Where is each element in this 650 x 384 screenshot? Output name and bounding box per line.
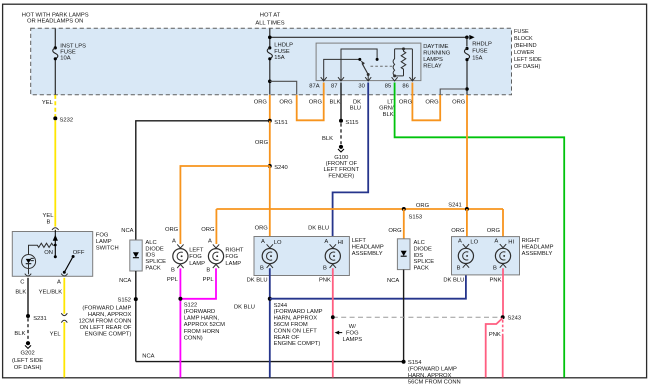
switch pin B arrow xyxy=(54,230,56,236)
svg-text:S231: S231 xyxy=(33,316,47,322)
svg-text:LHDLP: LHDLP xyxy=(274,43,293,49)
switch pin C chevron xyxy=(25,274,31,276)
svg-text:LEFT SIDE: LEFT SIDE xyxy=(514,57,542,63)
svg-text:BLK: BLK xyxy=(15,289,26,295)
svg-text:FUSE: FUSE xyxy=(60,50,76,56)
svg-text:ORG: ORG xyxy=(388,228,402,234)
svg-text:NCA: NCA xyxy=(119,278,131,284)
svg-text:FOG: FOG xyxy=(346,331,359,337)
svg-text:A: A xyxy=(208,239,212,245)
fog lamp switch S1 xyxy=(12,232,92,277)
relay pin 85 xyxy=(392,77,398,81)
wire: ORG relay 87A loop xyxy=(297,83,324,121)
svg-text:SPLICE: SPLICE xyxy=(414,259,435,265)
relay box: daytime running lamps relay U1 xyxy=(316,43,421,81)
wire: hot-at-all-times feed xyxy=(269,29,271,47)
svg-text:BLK: BLK xyxy=(330,99,341,105)
splice S122 xyxy=(178,297,182,301)
label S154 location xyxy=(408,360,461,384)
relay pin 87 xyxy=(338,77,344,81)
svg-text:87A: 87A xyxy=(309,84,319,90)
wire: BLK dashed to G100 xyxy=(340,123,342,144)
svg-text:S154: S154 xyxy=(408,360,422,366)
label S152 location xyxy=(79,306,132,338)
svg-text:(FORWARD LAMP: (FORWARD LAMP xyxy=(82,306,131,312)
svg-text:LAMP: LAMP xyxy=(96,239,112,245)
fuse: LHDLP FUSE 15A xyxy=(267,46,272,60)
left headlamp assembly box xyxy=(254,237,349,276)
splice S154 xyxy=(402,360,406,364)
right fog lamp xyxy=(208,244,223,268)
relay pin 87A xyxy=(321,77,327,81)
label: RHDLP FUSE 15A xyxy=(472,42,492,62)
svg-text:NCA: NCA xyxy=(387,278,399,284)
wire: PNK solid below S243 to page edge xyxy=(502,336,504,378)
svg-text:S240: S240 xyxy=(274,165,288,171)
svg-text:HOT AT: HOT AT xyxy=(260,13,281,19)
svg-text:HI: HI xyxy=(338,240,344,246)
inline connector on YEL wire xyxy=(61,313,67,322)
svg-text:B: B xyxy=(493,266,497,272)
svg-text:S241: S241 xyxy=(448,202,462,208)
svg-text:DK BLU: DK BLU xyxy=(308,226,329,232)
svg-text:YEL: YEL xyxy=(50,332,62,338)
svg-text:HEADLAMP: HEADLAMP xyxy=(352,245,384,251)
label G202 location xyxy=(12,351,43,371)
svg-text:ORG: ORG xyxy=(399,99,413,105)
svg-text:15A: 15A xyxy=(274,55,284,61)
fuse block label xyxy=(514,29,542,70)
switch node: ON contact xyxy=(54,255,57,258)
svg-text:BLU: BLU xyxy=(350,106,361,112)
svg-text:ORG: ORG xyxy=(279,99,293,105)
svg-text:PPL: PPL xyxy=(167,277,179,283)
svg-text:BLK: BLK xyxy=(383,112,394,118)
svg-text:S151: S151 xyxy=(274,120,288,126)
svg-text:INST LPS: INST LPS xyxy=(60,43,86,49)
relay switch arm xyxy=(360,60,370,76)
svg-text:DIODE: DIODE xyxy=(145,246,163,252)
svg-text:S244: S244 xyxy=(274,303,288,309)
svg-text:YEL: YEL xyxy=(42,100,54,106)
fuse: INST LPS FUSE 10A xyxy=(53,46,58,60)
relay contact 87 branch xyxy=(341,49,377,80)
fuse: RHDLP FUSE 15A xyxy=(464,47,469,61)
wire: INST LPS fuse feed xyxy=(54,29,56,47)
svg-text:ENGINE COMPT): ENGINE COMPT) xyxy=(274,341,321,347)
svg-text:YEL: YEL xyxy=(43,213,55,219)
svg-text:HEADLAMP: HEADLAMP xyxy=(522,245,554,251)
wire: YEL/BLK switch A down xyxy=(63,278,65,314)
label: INST LPS FUSE 10A xyxy=(60,43,86,61)
wire: DK BLU relay 30 to left headlamp HI xyxy=(333,83,369,245)
svg-text:B: B xyxy=(206,267,210,273)
relay arm-coil dashed link xyxy=(371,65,393,67)
svg-text:12CM FROM CONN: 12CM FROM CONN xyxy=(79,319,132,325)
wire: ORG headlamp bus xyxy=(216,208,503,210)
left headlamp HI bulb xyxy=(325,244,340,268)
svg-text:FOG: FOG xyxy=(189,254,202,260)
svg-text:RHDLP: RHDLP xyxy=(472,42,492,48)
svg-text:ASSEMBLY: ASSEMBLY xyxy=(352,251,383,257)
left headlamp LO bulb xyxy=(262,244,277,268)
svg-text:BLK: BLK xyxy=(322,136,333,142)
svg-text:A: A xyxy=(261,239,265,245)
wire: PNK right HL HI B to S243 xyxy=(502,268,504,317)
svg-text:PACK: PACK xyxy=(414,266,429,272)
svg-text:LEFT: LEFT xyxy=(352,238,367,244)
svg-text:86: 86 xyxy=(402,84,408,90)
svg-text:DIODE: DIODE xyxy=(414,246,432,252)
label fog lamp switch xyxy=(96,233,119,252)
relay pin 30 xyxy=(365,77,371,81)
wire: RHDLP fuse feed xyxy=(466,37,468,46)
svg-text:B: B xyxy=(323,266,327,272)
wire: ORG S153 to right splice pack xyxy=(403,209,405,239)
svg-text:PACK: PACK xyxy=(145,265,160,271)
svg-text:FUSE: FUSE xyxy=(472,49,488,55)
svg-text:ON LEFT REAR OF: ON LEFT REAR OF xyxy=(80,325,132,331)
splice S244 xyxy=(268,297,272,301)
switch illumination lamp (LED) xyxy=(22,255,36,275)
wire: PNK left HL HI B down to option splice xyxy=(332,268,334,377)
wire: ORG S240 to left headlamp LO xyxy=(269,166,271,244)
svg-text:ALC: ALC xyxy=(145,240,156,246)
wire: YEL below connector to page edge xyxy=(63,322,65,378)
svg-text:ENGINE COMPT): ENGINE COMPT) xyxy=(85,331,132,337)
wire: ORG LHDLP fuse to S151 xyxy=(269,95,271,121)
node: RHDLP output junction xyxy=(465,87,469,91)
wire: NCA left pack to S152 xyxy=(135,271,137,362)
svg-text:C: C xyxy=(20,280,24,286)
svg-text:56CM FROM: 56CM FROM xyxy=(274,322,308,328)
label: daytime running lamps relay xyxy=(423,44,451,70)
svg-text:ORG: ORG xyxy=(451,228,465,234)
switch resistor xyxy=(29,243,55,254)
splice S243 xyxy=(501,315,505,319)
svg-text:ORG: ORG xyxy=(165,227,179,233)
wire: YEL dashed segment below fuse block xyxy=(54,95,56,117)
label S122 location xyxy=(184,302,225,341)
svg-text:FENDER): FENDER) xyxy=(328,173,354,179)
svg-text:(FORWARD: (FORWARD xyxy=(184,309,216,315)
wire: ORG RHDLP fuse down to S241 xyxy=(466,95,468,209)
node: bus junction at RHDLP xyxy=(465,36,469,40)
splice S231 xyxy=(26,314,30,318)
svg-text:REAR OF: REAR OF xyxy=(274,335,300,341)
svg-text:SPLICE: SPLICE xyxy=(145,259,166,265)
splice S151 xyxy=(268,119,272,123)
label W/ FOG LAMPS xyxy=(342,324,362,343)
svg-text:A: A xyxy=(458,239,462,245)
svg-text:A: A xyxy=(57,280,61,286)
wire: PPL left fog B to S122 and page edge xyxy=(179,268,181,377)
svg-text:PNK: PNK xyxy=(489,332,501,338)
svg-text:HARN, APPROX: HARN, APPROX xyxy=(88,312,132,318)
svg-text:(FORWARD LAMP: (FORWARD LAMP xyxy=(274,309,323,315)
svg-text:CONN ON LEFT: CONN ON LEFT xyxy=(274,328,318,334)
svg-text:(BEHIND: (BEHIND xyxy=(514,43,537,49)
svg-text:FROM HORN: FROM HORN xyxy=(184,329,220,335)
wire: BLK dashed to G202 xyxy=(27,318,29,340)
label: LHDLP FUSE 15A xyxy=(274,43,293,62)
svg-text:ORG: ORG xyxy=(255,140,269,146)
svg-text:IDS: IDS xyxy=(414,253,424,259)
svg-text:LAMP HARN,: LAMP HARN, xyxy=(184,316,220,322)
right ALC diode IDS splice pack xyxy=(397,239,410,270)
svg-text:B: B xyxy=(171,267,175,273)
svg-text:87: 87 xyxy=(331,84,337,90)
svg-text:FUSE: FUSE xyxy=(514,29,529,35)
svg-text:APPROX 52CM: APPROX 52CM xyxy=(184,322,225,328)
right headlamp LO bulb xyxy=(458,244,473,268)
diode (right splice pack) xyxy=(401,251,407,256)
wire: NCA bottom run S152 to S154 xyxy=(136,361,404,363)
node: option splice on left PNK xyxy=(331,315,335,319)
splice S153 xyxy=(402,207,406,211)
svg-text:RIGHT: RIGHT xyxy=(522,238,540,244)
svg-text:PNK: PNK xyxy=(319,278,331,284)
wire: ORG S241 to right headlamp LO xyxy=(466,209,468,244)
wire: LHDLP output to relay 87A (in box) xyxy=(270,81,297,94)
svg-text:ORG: ORG xyxy=(201,227,215,233)
svg-text:FOG: FOG xyxy=(96,233,109,239)
svg-text:ORG: ORG xyxy=(452,99,466,105)
wire: BLK relay 87 to S115 xyxy=(340,83,342,121)
svg-text:IDS: IDS xyxy=(145,253,155,259)
svg-text:G202: G202 xyxy=(21,351,35,357)
svg-text:ALL TIMES: ALL TIMES xyxy=(255,20,284,26)
svg-text:SWITCH: SWITCH xyxy=(96,245,119,251)
switch node: resistor tap xyxy=(54,244,57,247)
wire: LT GRN/BLK relay 85 down and right xyxy=(395,83,565,378)
svg-text:A: A xyxy=(172,239,176,245)
svg-text:LOWER: LOWER xyxy=(514,50,534,56)
label right fog lamp xyxy=(225,247,243,266)
ground G100 xyxy=(338,145,344,152)
svg-text:S153: S153 xyxy=(409,214,423,220)
switch node: OFF contact xyxy=(72,255,75,258)
svg-text:BLOCK: BLOCK xyxy=(514,36,533,42)
svg-text:S122: S122 xyxy=(184,302,198,308)
svg-text:HARN, APPROX: HARN, APPROX xyxy=(408,373,452,379)
svg-text:S243: S243 xyxy=(508,315,522,321)
svg-text:OF DASH): OF DASH) xyxy=(14,365,42,371)
svg-text:FOG: FOG xyxy=(225,254,238,260)
wire: hot feed bus (in box) xyxy=(270,36,467,38)
svg-text:RELAY: RELAY xyxy=(423,64,442,70)
fuse block (dashed box) xyxy=(31,28,512,95)
svg-text:15A: 15A xyxy=(472,56,482,62)
svg-text:85: 85 xyxy=(385,84,391,90)
svg-text:LT: LT xyxy=(387,99,394,105)
svg-text:LAMP: LAMP xyxy=(189,261,205,267)
svg-text:LO: LO xyxy=(470,240,478,246)
svg-text:W/: W/ xyxy=(349,324,356,330)
svg-text:PNK: PNK xyxy=(490,278,502,284)
splice S152 xyxy=(134,297,138,301)
svg-text:ORG: ORG xyxy=(254,99,268,105)
svg-text:ORG: ORG xyxy=(487,228,501,234)
svg-text:ALC: ALC xyxy=(414,240,425,246)
svg-text:10A: 10A xyxy=(60,56,70,62)
arrow: bus continuation xyxy=(469,35,474,40)
svg-text:PPL: PPL xyxy=(203,277,215,283)
svg-text:A: A xyxy=(494,239,498,245)
svg-text:ORG: ORG xyxy=(309,99,323,105)
svg-text:OR HEADLAMPS ON: OR HEADLAMPS ON xyxy=(27,18,83,24)
label left ALC diode IDS splice pack xyxy=(145,240,166,271)
svg-text:B: B xyxy=(457,266,461,272)
ground G202 xyxy=(25,341,31,348)
wire: ORG S240 branch to left fog lamp xyxy=(180,166,269,244)
wire: BLK switch C to S231 xyxy=(27,278,29,316)
wire: dashed option link (w/ fog lamps) xyxy=(333,316,503,318)
svg-text:GRN/: GRN/ xyxy=(379,106,394,112)
svg-text:B: B xyxy=(46,220,50,226)
relay contact 87A branch xyxy=(324,59,359,80)
label DK BLU (30) xyxy=(350,99,361,111)
left ALC diode IDS splice pack xyxy=(130,240,142,271)
svg-text:B: B xyxy=(260,266,264,272)
node: LHDLP output junction xyxy=(268,80,272,84)
svg-text:ORG: ORG xyxy=(255,226,269,232)
svg-text:DK BLU: DK BLU xyxy=(247,278,268,284)
svg-text:ORG: ORG xyxy=(425,99,439,105)
svg-text:LAMPS: LAMPS xyxy=(342,337,362,343)
svg-text:56CM FROM CONN: 56CM FROM CONN xyxy=(408,380,461,384)
wire: LHDLP fuse output (in box) xyxy=(269,60,271,95)
wire: PNK dashed below S243 xyxy=(502,320,504,336)
switch pin B chevron xyxy=(52,228,59,230)
label right ALC diode IDS splice pack xyxy=(414,240,435,272)
wire: RHDLP fuse output (in box) xyxy=(466,61,468,95)
svg-text:S115: S115 xyxy=(345,120,358,126)
wire: NCA right pack to S154 xyxy=(403,270,405,362)
right headlamp HI bulb xyxy=(495,244,510,268)
switch arm (A to OFF) xyxy=(63,258,73,274)
label left headlamp assembly xyxy=(352,238,384,257)
switch pin A chevron xyxy=(61,274,67,276)
svg-text:HARN, APPROX: HARN, APPROX xyxy=(274,316,318,322)
relay coil xyxy=(393,47,412,80)
relay contact 87 dot xyxy=(376,58,379,61)
relay common 30 lead xyxy=(367,75,369,81)
svg-text:S232: S232 xyxy=(60,118,74,124)
svg-text:DK BLU: DK BLU xyxy=(443,278,464,284)
arrow: w/ fog lamps pointer xyxy=(335,331,343,335)
label right headlamp assembly xyxy=(522,238,554,257)
svg-text:DAYTIME: DAYTIME xyxy=(423,44,448,50)
wire: PNK jog from S243 to page edge xyxy=(486,318,503,378)
svg-text:DK: DK xyxy=(353,99,361,105)
right headlamp assembly box xyxy=(452,237,520,275)
svg-text:LAMP: LAMP xyxy=(225,261,241,267)
svg-text:ON: ON xyxy=(44,250,53,256)
svg-text:(FRONT OF: (FRONT OF xyxy=(326,161,358,167)
svg-text:(LEFT SIDE: (LEFT SIDE xyxy=(12,358,43,364)
wire: ORG bus drop to right headlamp HI xyxy=(502,209,504,244)
splice S232 xyxy=(53,116,57,120)
diode (left splice pack) xyxy=(133,252,139,257)
svg-text:LEFT FRONT: LEFT FRONT xyxy=(323,167,359,173)
left fog lamp xyxy=(173,244,188,268)
label LT GRN/BLK xyxy=(379,99,394,118)
wire: NCA from S151 to left splice pack xyxy=(136,121,270,240)
label G100 location xyxy=(323,155,359,179)
wire: ORG S151 to S240 xyxy=(269,121,271,166)
splice S240 xyxy=(268,164,272,168)
svg-text:(FORWARD LAMP: (FORWARD LAMP xyxy=(408,367,457,373)
label S244 location xyxy=(274,303,323,347)
svg-text:DK BLU: DK BLU xyxy=(234,305,255,311)
svg-text:OFF: OFF xyxy=(73,250,85,256)
svg-text:LO: LO xyxy=(274,240,282,246)
svg-text:30: 30 xyxy=(358,84,364,90)
svg-text:ASSEMBLY: ASSEMBLY xyxy=(522,251,553,257)
svg-text:FUSE: FUSE xyxy=(274,49,290,55)
wire: PPL right fog B to S122 xyxy=(181,268,216,298)
wire: ORG relay 86 loop to RHDLP output xyxy=(412,83,440,121)
svg-text:NCA: NCA xyxy=(142,354,154,360)
svg-text:ORG: ORG xyxy=(416,203,430,209)
label left fog lamp xyxy=(189,247,205,266)
splice S115 xyxy=(339,119,343,123)
svg-text:CONN): CONN) xyxy=(184,335,203,341)
svg-text:RUNNING: RUNNING xyxy=(423,51,451,57)
splice S241 xyxy=(465,207,469,211)
svg-text:LEFT: LEFT xyxy=(189,247,204,253)
wire: ORG bus drop to right fog lamp xyxy=(215,209,217,244)
svg-text:NCA: NCA xyxy=(121,228,133,234)
relay contact 87A dot xyxy=(358,58,361,61)
relay pin 86 xyxy=(409,77,415,81)
svg-text:BLK: BLK xyxy=(14,331,25,337)
svg-text:A: A xyxy=(324,239,328,245)
svg-text:G100: G100 xyxy=(334,155,348,161)
svg-text:HI: HI xyxy=(508,240,514,246)
wire: YEL to fog lamp switch B xyxy=(54,120,56,226)
wire: relay 86 to RHDLP output (in box) xyxy=(440,89,466,95)
svg-text:RIGHT: RIGHT xyxy=(225,247,243,253)
wire: DK BLU left HL LO B to S244 and page edge xyxy=(269,268,271,377)
node: bus junction at LHDLP xyxy=(268,36,272,40)
wire: DK BLU S244 run to right headlamp LO B xyxy=(270,268,466,298)
wire: INST LPS fuse output (in box) xyxy=(54,60,56,95)
svg-text:S152: S152 xyxy=(117,297,131,303)
svg-text:OF DASH): OF DASH) xyxy=(514,64,540,70)
svg-text:LAMPS: LAMPS xyxy=(423,57,443,63)
svg-text:YEL/BLK: YEL/BLK xyxy=(39,289,63,295)
